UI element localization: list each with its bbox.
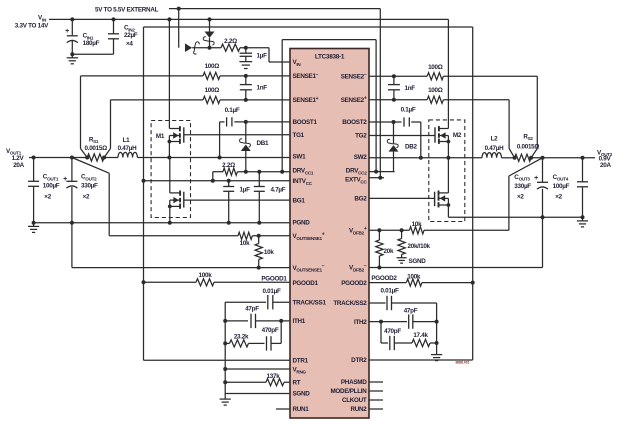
svg-text:10k: 10k [264, 249, 274, 256]
svg-text:5V TO 5.5V EXTERNAL: 5V TO 5.5V EXTERNAL [95, 6, 159, 13]
svg-text:×2: ×2 [83, 193, 90, 200]
svg-text:137k: 137k [267, 373, 281, 380]
svg-text:+: + [63, 176, 67, 183]
svg-text:10k: 10k [412, 221, 422, 228]
svg-text:20k//10k: 20k//10k [408, 243, 431, 250]
svg-text:TG2: TG2 [355, 133, 367, 140]
svg-text:100µF: 100µF [553, 183, 570, 190]
svg-text:2.2Ω: 2.2Ω [222, 162, 235, 169]
svg-text:L2: L2 [491, 136, 499, 143]
svg-text:17.4k: 17.4k [413, 332, 428, 339]
svg-text:BOOST1: BOOST1 [293, 119, 318, 126]
svg-text:RUN2: RUN2 [350, 406, 367, 413]
svg-text:PGOOD1: PGOOD1 [261, 276, 287, 283]
svg-text:100k: 100k [199, 272, 213, 279]
svg-text:CLKOUT: CLKOUT [342, 397, 367, 404]
svg-text:0.1µF: 0.1µF [401, 107, 416, 114]
svg-text:470pF: 470pF [262, 327, 279, 334]
svg-text:20A: 20A [600, 162, 611, 169]
svg-text:22µF: 22µF [124, 32, 138, 39]
svg-text:3.3V TO 14V: 3.3V TO 14V [15, 22, 49, 29]
svg-text:470pF: 470pF [384, 328, 401, 335]
svg-text:×4: ×4 [126, 40, 133, 47]
svg-text:+: + [65, 28, 69, 35]
svg-text:+: + [534, 175, 538, 182]
svg-text:MODE/PLLIN: MODE/PLLIN [330, 388, 367, 395]
svg-text:ITH1: ITH1 [293, 318, 306, 325]
svg-text:BG2: BG2 [354, 196, 367, 203]
svg-text:ITH2: ITH2 [354, 319, 367, 326]
svg-text:100Ω: 100Ω [428, 87, 443, 94]
svg-text:0.01µF: 0.01µF [262, 288, 280, 295]
svg-text:L1: L1 [123, 137, 131, 144]
svg-text:M2: M2 [453, 132, 462, 139]
svg-text:LTC3838-1: LTC3838-1 [315, 54, 345, 61]
svg-text:0.47µH: 0.47µH [485, 145, 504, 152]
svg-text:100µF: 100µF [43, 183, 60, 190]
svg-text:100Ω: 100Ω [428, 64, 443, 71]
svg-text:0.0015Ω: 0.0015Ω [517, 143, 540, 150]
svg-text:1µF: 1µF [240, 187, 251, 194]
svg-text:SGND: SGND [293, 391, 311, 398]
svg-text:SENSE2+​: SENSE2+​ [341, 96, 367, 104]
svg-text:100Ω: 100Ω [205, 63, 220, 70]
svg-text:×2: ×2 [44, 193, 51, 200]
svg-text:DTR1: DTR1 [293, 357, 309, 364]
svg-text:DB2: DB2 [405, 143, 418, 150]
svg-text:PGOOD2: PGOOD2 [341, 280, 367, 287]
svg-text:10k: 10k [240, 240, 250, 247]
svg-text:20k: 20k [384, 248, 394, 255]
svg-text:330µF: 330µF [81, 183, 98, 190]
svg-text:PGOOD2: PGOOD2 [371, 275, 397, 282]
svg-text:180µF: 180µF [83, 40, 100, 47]
svg-text:SENSE1+​: SENSE1+​ [293, 96, 319, 104]
svg-text:RT: RT [293, 379, 301, 386]
svg-text:×2: ×2 [555, 194, 562, 201]
svg-text:100k: 100k [407, 273, 421, 280]
svg-text:DB1: DB1 [257, 140, 270, 147]
svg-text:TRACK/SS1: TRACK/SS1 [293, 299, 327, 306]
svg-text:SW2: SW2 [354, 154, 368, 161]
svg-text:BG1: BG1 [293, 197, 306, 204]
svg-text:1nF: 1nF [405, 85, 416, 92]
svg-text:DTR2: DTR2 [351, 357, 367, 364]
svg-text:SENSE1−​: SENSE1−​ [293, 72, 319, 80]
svg-text:SW1: SW1 [293, 154, 307, 161]
svg-text:23.2k: 23.2k [234, 333, 249, 340]
svg-text:47pF: 47pF [404, 307, 418, 314]
svg-text:4.7µF: 4.7µF [271, 187, 286, 194]
svg-text:PGOOD1: PGOOD1 [293, 280, 319, 287]
svg-text:M1: M1 [156, 133, 165, 140]
svg-text:47pF: 47pF [245, 305, 259, 312]
svg-text:×2: ×2 [517, 194, 524, 201]
svg-text:0.1µF: 0.1µF [225, 107, 240, 114]
svg-text:0.01µF: 0.01µF [380, 288, 398, 295]
svg-text:SGND: SGND [409, 258, 427, 265]
svg-text:2.2Ω: 2.2Ω [224, 38, 237, 45]
svg-text:BOOST2: BOOST2 [342, 119, 367, 126]
svg-text:PGND: PGND [293, 220, 311, 227]
svg-text:TG1: TG1 [293, 132, 305, 139]
svg-text:TRACK/SS2: TRACK/SS2 [333, 300, 367, 307]
svg-text:20A: 20A [13, 162, 24, 169]
svg-text:0.47µH: 0.47µH [118, 145, 137, 152]
svg-text:0.0015Ω: 0.0015Ω [85, 145, 108, 152]
svg-text:PHASMD: PHASMD [341, 379, 367, 386]
svg-text:1µF: 1µF [257, 53, 268, 60]
svg-text:1nF: 1nF [257, 85, 268, 92]
svg-text:330µF: 330µF [514, 183, 531, 190]
svg-text:100Ω: 100Ω [205, 87, 220, 94]
svg-text:38381 F15: 38381 F15 [455, 361, 469, 365]
svg-text:RUN1: RUN1 [293, 406, 310, 413]
svg-text:SENSE2−​: SENSE2−​ [341, 72, 367, 80]
